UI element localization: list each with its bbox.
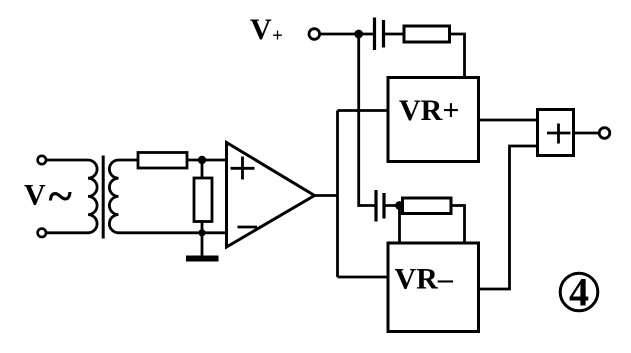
wire C1 to R3 <box>384 33 405 36</box>
wire R4 right to VR- top <box>451 206 465 244</box>
wire V+ to C1 <box>320 33 375 36</box>
node B junction <box>198 229 205 236</box>
node C junction V+ <box>354 30 363 39</box>
svg-text:VR+: VR+ <box>399 94 459 127</box>
terminal input top <box>38 156 46 164</box>
capacitor C2 <box>376 190 384 222</box>
terminal V+ <box>309 29 320 40</box>
capacitor C1 <box>375 18 384 51</box>
resistor R2 <box>194 178 212 222</box>
summing block plus mark <box>547 124 571 144</box>
svg-text:VR–: VR– <box>395 263 454 296</box>
svg-text:~: ~ <box>49 171 73 221</box>
label V~ <box>24 171 73 221</box>
wire node D to VR- top <box>398 206 401 244</box>
wire output <box>574 132 600 135</box>
wire secondary top <box>119 159 139 162</box>
resistor R3 <box>404 26 450 42</box>
ground <box>186 256 219 262</box>
op-amp U1 plus input mark <box>231 157 255 180</box>
block VR+ box <box>388 78 479 162</box>
op-amp U1 <box>227 143 315 248</box>
wire input top <box>46 159 88 162</box>
transformer T1 core <box>102 156 105 239</box>
wire R2 to ground <box>201 222 204 259</box>
wire input bottom <box>46 231 88 234</box>
summing block <box>538 110 574 156</box>
svg-text:4: 4 <box>569 270 589 315</box>
wire V+ down to C2 <box>359 34 376 206</box>
block VR- box <box>388 243 479 332</box>
wire VR- output <box>479 146 538 289</box>
wire R1 to op-amp <box>187 159 227 162</box>
terminal input bottom <box>38 229 46 237</box>
resistor R4 <box>403 198 452 214</box>
wire secondary bottom <box>119 231 227 234</box>
wire R3 right <box>450 34 465 78</box>
op-amp U1 minus input mark <box>238 226 258 229</box>
wire bus to VR- input <box>338 276 389 279</box>
wire bus to VR+ input <box>338 109 389 112</box>
transformer T1 secondary winding <box>109 160 118 233</box>
node D junction <box>395 201 404 210</box>
resistor R1 <box>138 153 187 169</box>
transformer T1 primary winding <box>88 160 97 233</box>
figure number 4 circled <box>560 270 598 315</box>
wire node A to R2 <box>201 160 204 178</box>
wire C2 to node D <box>384 204 403 207</box>
svg-text:V: V <box>24 179 46 212</box>
wire bus vertical <box>336 111 339 278</box>
node A junction <box>198 156 206 164</box>
wire op-amp output <box>315 194 338 197</box>
terminal output <box>599 128 610 139</box>
wire VR+ output <box>479 119 538 122</box>
